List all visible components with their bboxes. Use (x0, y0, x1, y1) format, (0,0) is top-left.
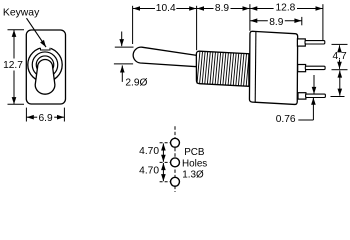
svg-text:10.4: 10.4 (156, 3, 176, 14)
dimension 10.4 (133, 6, 197, 44)
svg-text:Keyway: Keyway (3, 8, 40, 19)
pin 1 (305, 41, 325, 44)
svg-text:0.76: 0.76 (276, 114, 296, 125)
svg-text:12.8: 12.8 (275, 3, 295, 14)
pcb hole 2 (171, 158, 180, 167)
dimension 0.76 (298, 75, 314, 120)
svg-text:2.9Ø: 2.9Ø (125, 78, 147, 89)
svg-text:6.9: 6.9 (39, 113, 53, 124)
bushing threads (197, 50, 250, 89)
pcb hole 3 (171, 177, 180, 186)
side view threaded bushing (196, 51, 249, 86)
pin 3 (306, 94, 326, 97)
svg-text:PCB: PCB (184, 147, 205, 158)
keyway leader arrow (27, 18, 47, 47)
dimension 2.9 dia (114, 32, 134, 82)
pcb hole spacing arrows (162, 143, 164, 181)
dimension 12.7 (8, 30, 25, 104)
body front plate line (254, 32, 257, 103)
front view toggle lever (35, 59, 55, 94)
svg-text:4.70: 4.70 (139, 166, 159, 177)
svg-text:4.70: 4.70 (139, 146, 159, 157)
dimension 8.9 body (250, 17, 302, 25)
svg-text:1.3Ø: 1.3Ø (182, 169, 204, 180)
dimension 8.9 bushing (197, 6, 250, 50)
side view switch body (249, 31, 297, 104)
dimension 4.7 (331, 44, 348, 96)
dimension 12.8 (250, 4, 323, 40)
front view bushing inner rings (32, 52, 58, 78)
svg-text:8.9: 8.9 (269, 17, 283, 28)
svg-text:12.7: 12.7 (3, 60, 23, 71)
pin pads (297, 39, 306, 99)
svg-text:4.7: 4.7 (333, 51, 347, 62)
pcb hole center ticks (160, 143, 171, 182)
dimension 6.9 (26, 108, 64, 122)
side view toggle lever (133, 47, 197, 67)
pcb hole 1 (171, 138, 180, 147)
front view switch frame (26, 30, 65, 104)
svg-text:8.9: 8.9 (215, 3, 229, 14)
svg-text:Holes: Holes (182, 158, 207, 169)
front view bushing face circle (28, 46, 62, 82)
pcb holes centerline (174, 126, 176, 192)
pin 2 (305, 66, 325, 69)
